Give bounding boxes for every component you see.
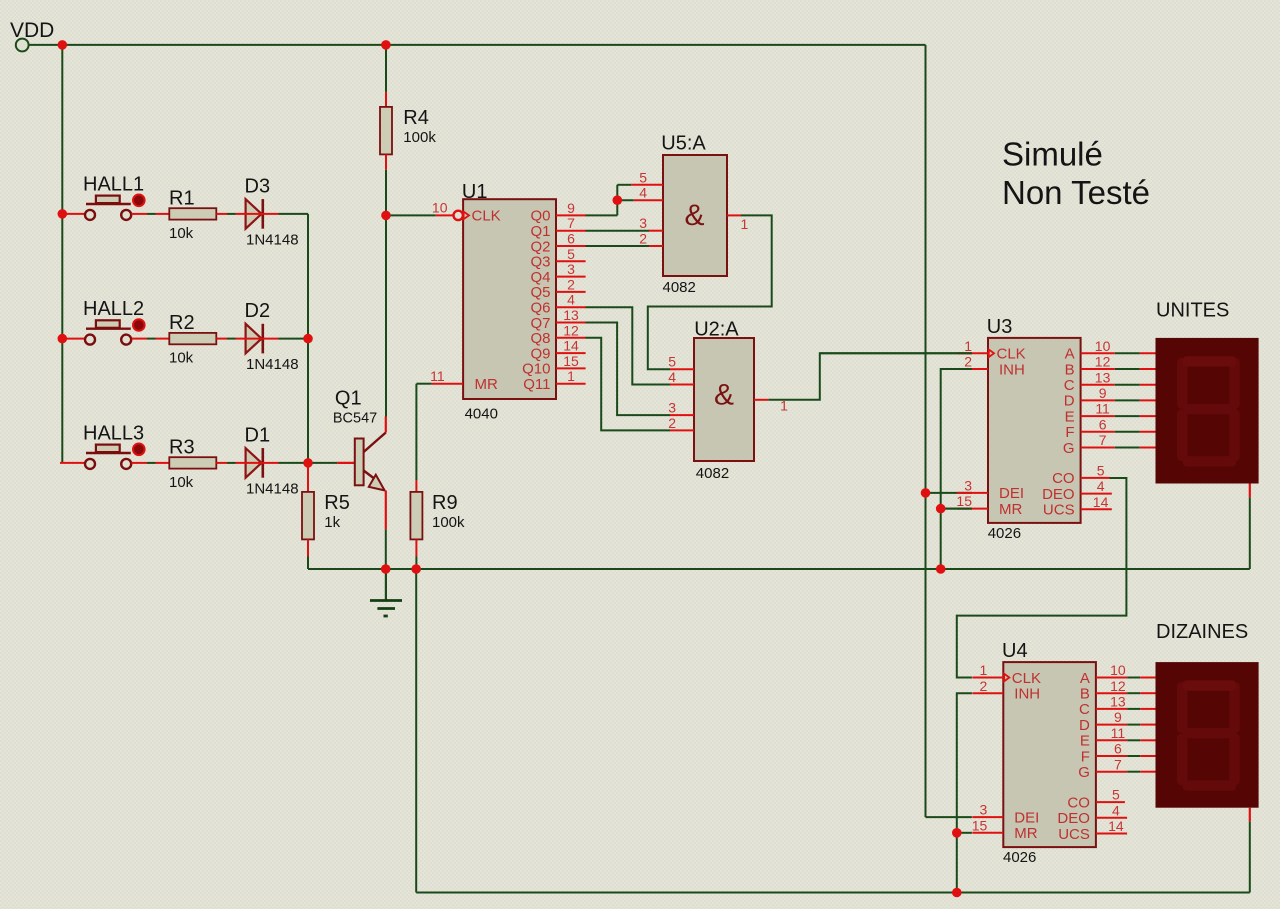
svg-text:5: 5 — [1112, 787, 1120, 803]
svg-text:1: 1 — [780, 398, 788, 414]
svg-text:6: 6 — [567, 231, 575, 247]
svg-text:UCS: UCS — [1043, 502, 1075, 519]
svg-text:D3: D3 — [245, 175, 271, 197]
svg-text:14: 14 — [1108, 818, 1124, 834]
svg-text:14: 14 — [563, 338, 579, 354]
svg-text:13: 13 — [563, 307, 579, 323]
svg-text:CLK: CLK — [1012, 670, 1041, 687]
svg-text:12: 12 — [563, 322, 579, 338]
svg-text:10k: 10k — [169, 474, 194, 491]
svg-text:5: 5 — [567, 246, 575, 262]
svg-text:1: 1 — [980, 662, 988, 678]
svg-text:3: 3 — [567, 261, 575, 277]
svg-text:9: 9 — [567, 200, 575, 216]
svg-text:E: E — [1065, 408, 1075, 425]
svg-text:CLK: CLK — [472, 208, 501, 225]
svg-text:4: 4 — [639, 185, 647, 201]
svg-text:DIZAINES: DIZAINES — [1156, 621, 1248, 643]
svg-text:10k: 10k — [169, 350, 194, 367]
svg-text:12: 12 — [1095, 354, 1111, 370]
svg-text:E: E — [1080, 733, 1090, 750]
svg-text:B: B — [1080, 686, 1090, 703]
svg-text:4040: 4040 — [465, 405, 498, 422]
svg-text:CO: CO — [1067, 794, 1090, 811]
svg-text:3: 3 — [668, 400, 676, 416]
svg-text:CLK: CLK — [997, 346, 1026, 363]
svg-text:11: 11 — [1095, 401, 1110, 417]
svg-text:A: A — [1080, 670, 1090, 687]
svg-text:1N4148: 1N4148 — [246, 356, 299, 373]
svg-text:2: 2 — [668, 415, 676, 431]
svg-text:10: 10 — [1110, 662, 1126, 678]
svg-text:4082: 4082 — [663, 279, 696, 296]
svg-text:R5: R5 — [324, 492, 350, 514]
svg-text:2: 2 — [639, 231, 647, 247]
svg-text:C: C — [1079, 701, 1090, 718]
svg-text:1: 1 — [567, 368, 575, 384]
svg-text:14: 14 — [1093, 494, 1109, 510]
svg-text:Simulé: Simulé — [1002, 136, 1103, 173]
svg-text:Non Testé: Non Testé — [1002, 174, 1150, 211]
svg-text:INH: INH — [1014, 686, 1040, 703]
svg-text:MR: MR — [999, 501, 1022, 518]
svg-text:HALL3: HALL3 — [83, 422, 144, 444]
svg-text:BC547: BC547 — [333, 411, 377, 427]
svg-text:13: 13 — [1110, 694, 1126, 710]
svg-text:3: 3 — [964, 478, 972, 494]
svg-text:B: B — [1065, 361, 1075, 378]
svg-text:10: 10 — [1095, 338, 1111, 354]
svg-text:9: 9 — [1114, 709, 1122, 725]
svg-text:D: D — [1079, 717, 1090, 734]
svg-text:R4: R4 — [403, 107, 429, 129]
svg-text:2: 2 — [980, 678, 988, 694]
svg-text:F: F — [1081, 748, 1090, 765]
svg-text:U3: U3 — [987, 316, 1013, 338]
svg-text:15: 15 — [972, 817, 988, 833]
svg-text:100k: 100k — [403, 129, 436, 146]
svg-text:10k: 10k — [169, 225, 194, 242]
svg-text:4026: 4026 — [1003, 849, 1036, 866]
svg-text:4: 4 — [1112, 802, 1120, 818]
svg-text:4: 4 — [668, 369, 676, 385]
svg-text:4: 4 — [1097, 478, 1105, 494]
svg-text:Q11: Q11 — [523, 376, 550, 393]
svg-text:6: 6 — [1114, 741, 1122, 757]
svg-text:4082: 4082 — [696, 465, 729, 482]
svg-text:D: D — [1064, 393, 1075, 410]
svg-text:5: 5 — [668, 354, 676, 370]
svg-text:VDD: VDD — [10, 19, 54, 42]
svg-text:R1: R1 — [169, 187, 195, 209]
svg-text:DEI: DEI — [999, 485, 1024, 502]
svg-text:&: & — [714, 379, 734, 412]
svg-text:U5:A: U5:A — [661, 133, 706, 155]
svg-text:3: 3 — [980, 802, 988, 818]
svg-text:R3: R3 — [169, 436, 195, 458]
svg-text:HALL1: HALL1 — [83, 173, 144, 195]
svg-text:2: 2 — [567, 276, 575, 292]
svg-text:7: 7 — [1099, 432, 1107, 448]
svg-text:F: F — [1065, 424, 1074, 441]
svg-text:DEO: DEO — [1042, 486, 1075, 503]
svg-text:11: 11 — [1111, 725, 1126, 741]
svg-text:2: 2 — [964, 354, 972, 370]
svg-text:6: 6 — [1099, 416, 1107, 432]
svg-text:5: 5 — [1097, 463, 1105, 479]
svg-text:D2: D2 — [245, 300, 271, 322]
svg-text:&: & — [685, 199, 705, 232]
svg-text:3: 3 — [639, 215, 647, 231]
svg-text:4026: 4026 — [988, 525, 1021, 542]
svg-text:10: 10 — [432, 199, 448, 215]
svg-text:15: 15 — [956, 493, 972, 509]
svg-text:A: A — [1065, 346, 1075, 363]
svg-text:1: 1 — [964, 338, 972, 354]
svg-text:UNITES: UNITES — [1156, 300, 1229, 322]
svg-text:1N4148: 1N4148 — [246, 480, 299, 497]
svg-text:G: G — [1078, 764, 1090, 781]
svg-text:MR: MR — [1014, 825, 1037, 842]
svg-text:R2: R2 — [169, 312, 195, 334]
svg-text:7: 7 — [567, 215, 575, 231]
svg-text:HALL2: HALL2 — [83, 298, 144, 320]
svg-text:C: C — [1064, 377, 1075, 394]
svg-text:MR: MR — [475, 376, 498, 393]
svg-text:7: 7 — [1114, 756, 1122, 772]
svg-text:INH: INH — [999, 361, 1025, 378]
svg-text:U1: U1 — [462, 181, 488, 203]
svg-text:1N4148: 1N4148 — [246, 231, 299, 248]
svg-text:U2:A: U2:A — [694, 319, 739, 341]
svg-text:1: 1 — [741, 216, 749, 232]
svg-text:R9: R9 — [432, 492, 458, 514]
svg-text:4: 4 — [567, 292, 575, 308]
svg-text:U4: U4 — [1002, 640, 1028, 662]
svg-text:DEI: DEI — [1014, 809, 1039, 826]
svg-text:1k: 1k — [324, 514, 340, 531]
svg-text:15: 15 — [563, 353, 579, 369]
svg-text:G: G — [1063, 440, 1075, 457]
svg-text:11: 11 — [430, 368, 445, 384]
svg-text:DEO: DEO — [1057, 810, 1090, 827]
svg-text:D1: D1 — [245, 424, 271, 446]
svg-text:5: 5 — [639, 169, 647, 185]
svg-text:9: 9 — [1099, 385, 1107, 401]
svg-text:13: 13 — [1095, 369, 1111, 385]
svg-text:Q1: Q1 — [335, 388, 362, 410]
svg-text:UCS: UCS — [1058, 826, 1090, 843]
svg-text:CO: CO — [1052, 470, 1075, 487]
svg-text:12: 12 — [1110, 678, 1126, 694]
svg-text:100k: 100k — [432, 514, 465, 531]
